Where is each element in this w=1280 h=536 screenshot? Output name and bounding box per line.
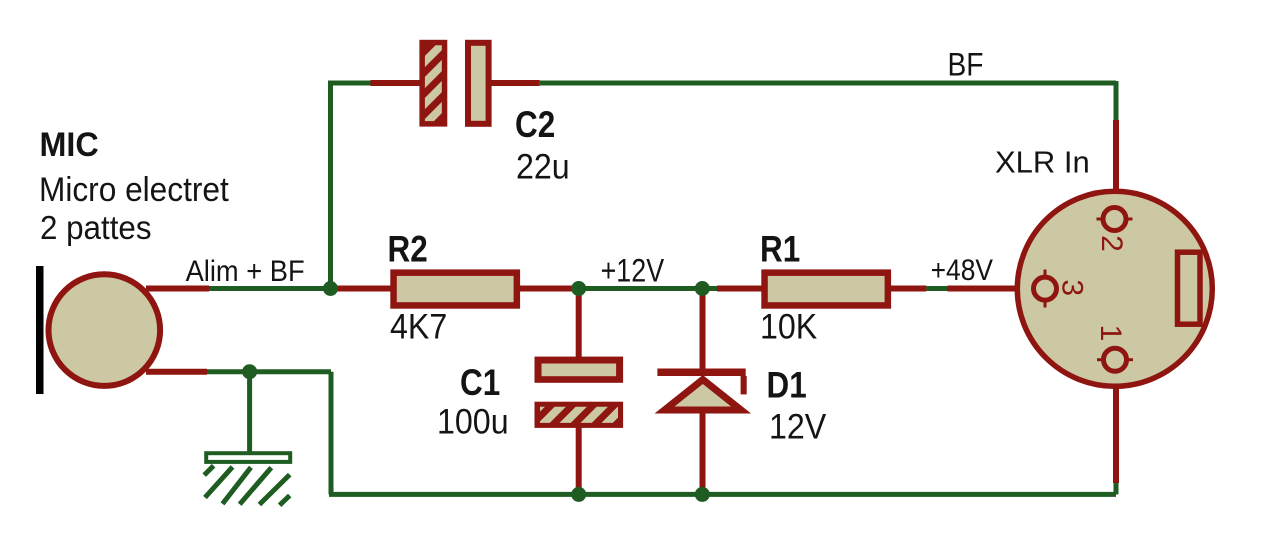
svg-text:D1: D1 xyxy=(767,365,807,406)
svg-text:C2: C2 xyxy=(515,105,555,146)
svg-text:C1: C1 xyxy=(460,363,500,404)
svg-text:22u: 22u xyxy=(516,148,570,187)
svg-text:XLR In: XLR In xyxy=(995,145,1090,180)
svg-text:R1: R1 xyxy=(760,229,800,270)
svg-text:2 pattes: 2 pattes xyxy=(40,209,152,246)
svg-text:BF: BF xyxy=(948,48,984,83)
svg-text:3: 3 xyxy=(1056,279,1089,296)
svg-text:4K7: 4K7 xyxy=(390,308,447,347)
svg-text:10K: 10K xyxy=(760,308,818,347)
svg-text:2: 2 xyxy=(1095,235,1128,252)
svg-text:R2: R2 xyxy=(388,229,428,270)
svg-text:MIC: MIC xyxy=(40,126,99,164)
svg-text:1: 1 xyxy=(1094,325,1127,342)
svg-text:100u: 100u xyxy=(437,403,509,442)
svg-text:+48V: +48V xyxy=(931,252,994,286)
svg-text:Micro electret: Micro electret xyxy=(39,170,229,208)
svg-text:+12V: +12V xyxy=(601,253,665,289)
svg-text:12V: 12V xyxy=(769,408,827,447)
svg-text:Alim + BF: Alim + BF xyxy=(186,255,305,288)
